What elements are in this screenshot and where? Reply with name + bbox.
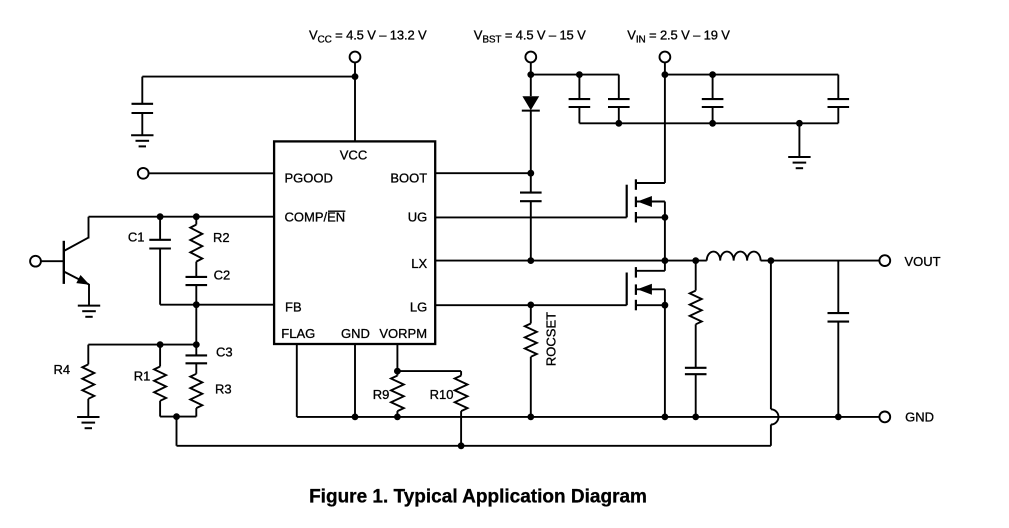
wire GND rail (297, 416, 880, 418)
capacitor C1 (159, 217, 161, 240)
node FB junction (193, 301, 200, 308)
node inductor left (692, 257, 699, 264)
wire feedback bus bottom (177, 445, 771, 447)
svg-text:GND: GND (905, 410, 934, 425)
resistor R9 (396, 371, 398, 376)
node lower source gnd (662, 414, 669, 421)
svg-text:R3: R3 (215, 382, 232, 397)
terminal base input (30, 256, 41, 267)
svg-text:C3: C3 (216, 345, 233, 360)
wire BOOT (435, 172, 531, 174)
wire R1/R3 bottom (160, 416, 196, 418)
terminal VBST (525, 52, 536, 63)
svg-text:BOOT: BOOT (390, 171, 427, 186)
node lower source (662, 302, 669, 309)
transistor Q1 NPN (63, 241, 65, 284)
wire cap bottom rail (579, 122, 838, 124)
ground bypass cap (131, 134, 153, 136)
node ROCSET bottom (527, 414, 534, 421)
wire FB down to C3 row (195, 305, 197, 345)
op-amp U1 controller IC box (274, 141, 435, 344)
transistor Q2 upper MOSFET (435, 216, 627, 218)
svg-text:FLAG: FLAG (281, 326, 315, 341)
capacitor VBST B (618, 75, 620, 100)
wire VCC to left bypass cap (142, 76, 355, 78)
svg-text:LX: LX (411, 256, 427, 271)
terminal VCC (350, 52, 361, 63)
wire VOUT sense drop with hop (770, 261, 772, 410)
node ground tap (796, 120, 803, 127)
ground R4 (77, 416, 99, 418)
node BOOT junction (527, 170, 534, 177)
transistor Q3 lower MOSFET (435, 304, 627, 306)
node ROCSET top on LG (527, 302, 534, 309)
svg-text:GND: GND (341, 326, 370, 341)
node R9 bottom (394, 414, 401, 421)
node VCC junction (352, 73, 359, 80)
wire R4/R1/C3 top row (88, 344, 196, 346)
capacitor bootstrap (520, 192, 542, 194)
node VORPM junction (394, 368, 401, 375)
node upper source (662, 214, 669, 221)
svg-text:R9: R9 (373, 387, 390, 402)
wire VIN vertical (664, 63, 666, 183)
wire VCC vertical to IC (354, 63, 356, 142)
svg-text:VOUT: VOUT (905, 254, 941, 269)
wire VBST top rail (531, 74, 619, 76)
node R2 top (193, 213, 200, 220)
wire GND pin down (354, 344, 356, 417)
wire drop to feedback bus (176, 417, 178, 446)
terminal VOUT (879, 255, 890, 266)
wire VIN top rail (665, 74, 838, 76)
node cap B bottom (615, 120, 622, 127)
svg-text:R4: R4 (54, 362, 71, 377)
svg-text:R10: R10 (430, 387, 454, 402)
capacitor output (837, 261, 839, 314)
node R10 bottom (458, 442, 465, 449)
node VIN junction (662, 71, 669, 78)
svg-text:LG: LG (410, 300, 427, 315)
wire base input (41, 260, 64, 262)
node VBST junction (527, 71, 534, 78)
wire PGOOD (149, 172, 275, 174)
terminal PGOOD (138, 168, 149, 179)
ground emitter (78, 305, 100, 307)
resistor R3 (195, 363, 197, 374)
node VOUT sense (768, 257, 775, 264)
svg-text:VORPM: VORPM (379, 326, 427, 341)
node bootstrap/LX (527, 257, 534, 264)
node fb cap bottom (692, 414, 699, 421)
node R1/R3 bottom junction (173, 413, 180, 420)
capacitor C3 (195, 345, 197, 356)
resistor R2 (195, 217, 197, 225)
node cap C bottom (709, 120, 716, 127)
wire FLAG down (296, 344, 298, 417)
wire FB (160, 304, 274, 306)
svg-text:Figure 1. Typical Application: Figure 1. Typical Application Diagram (309, 486, 647, 507)
capacitor feedback (685, 367, 707, 369)
svg-text:C1: C1 (128, 230, 145, 245)
svg-text:R1: R1 (134, 368, 151, 383)
svg-text:VCC: VCC (340, 147, 367, 162)
wire COMP/EN (89, 216, 275, 218)
node cap C top (709, 71, 716, 78)
node R1 top (157, 341, 164, 348)
svg-text:ROCSET: ROCSET (543, 312, 558, 366)
wire LX (435, 260, 707, 262)
resistor feedback divider (695, 261, 697, 291)
node GND pin (352, 414, 359, 421)
resistor ROCSET (530, 305, 532, 324)
wire VORPM down (396, 344, 398, 371)
node C1 top (157, 213, 164, 220)
svg-text:C2: C2 (214, 268, 231, 283)
svg-text:UG: UG (408, 210, 428, 225)
capacitor VBST A (578, 75, 580, 100)
terminal GND (879, 412, 890, 423)
node LX/MOSFET (662, 257, 669, 264)
resistor R1 (159, 345, 161, 367)
capacitor VCC bypass (141, 77, 143, 104)
wire VORPM to R10 (397, 370, 461, 372)
node C3 top (193, 341, 200, 348)
diode D1 bootstrap (522, 96, 539, 110)
wire VBST stub (530, 63, 532, 96)
wire LX to VOUT (761, 260, 880, 262)
ground input caps (798, 123, 800, 157)
terminal VIN (660, 52, 671, 63)
svg-text:R2: R2 (213, 230, 230, 245)
inductor L1 (707, 252, 761, 261)
svg-text:FB: FB (285, 300, 302, 315)
node cap A top (576, 71, 583, 78)
resistor R10 (460, 371, 462, 376)
capacitor VIN C (712, 75, 714, 100)
capacitor C2 (186, 276, 208, 278)
svg-text:PGOOD: PGOOD (285, 171, 333, 186)
capacitor VIN D (837, 75, 839, 100)
resistor R4 (87, 345, 89, 365)
node output cap bottom (835, 414, 842, 421)
